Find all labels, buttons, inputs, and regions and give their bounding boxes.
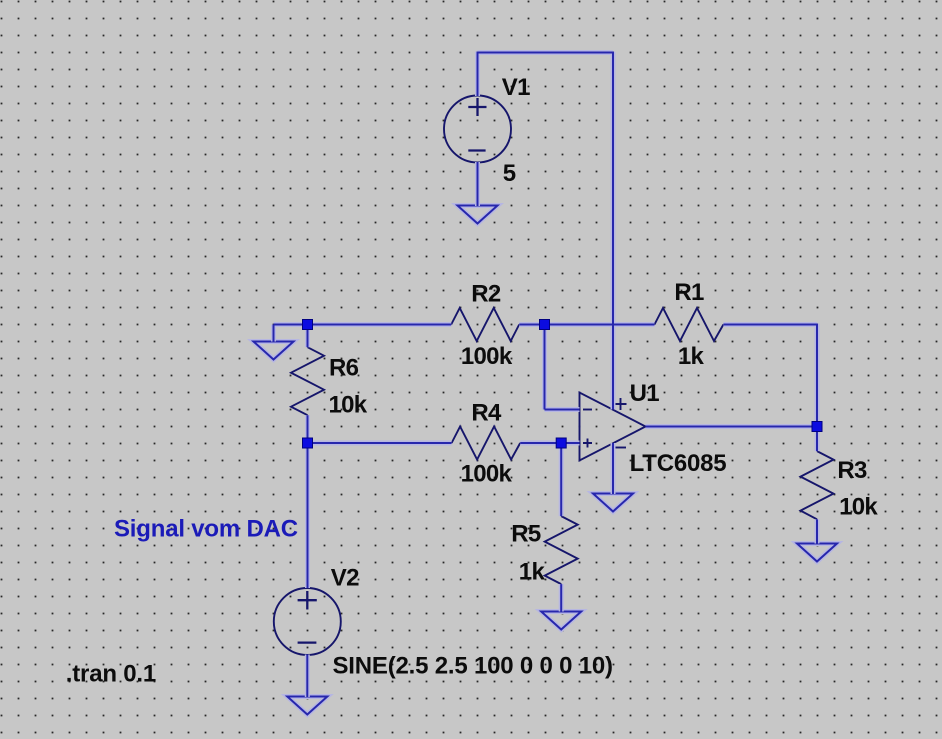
svg-text:100k: 100k <box>461 343 513 370</box>
svg-text:Signal vom DAC: Signal vom DAC <box>114 516 298 543</box>
svg-text:1k: 1k <box>519 559 546 586</box>
svg-text:10k: 10k <box>329 392 368 419</box>
svg-text:100k: 100k <box>461 461 513 488</box>
svg-text:R2: R2 <box>471 281 501 308</box>
svg-text:V1: V1 <box>502 74 530 101</box>
svg-text:LTC6085: LTC6085 <box>630 450 727 477</box>
svg-text:R6: R6 <box>329 355 359 382</box>
svg-text:SINE(2.5 2.5 100 0 0 0 10): SINE(2.5 2.5 100 0 0 0 10) <box>333 653 613 680</box>
svg-text:V2: V2 <box>331 564 359 591</box>
svg-text:10k: 10k <box>839 493 878 520</box>
svg-text:R1: R1 <box>674 279 704 306</box>
svg-text:R4: R4 <box>471 399 502 426</box>
svg-text:R5: R5 <box>511 520 541 547</box>
svg-text:R3: R3 <box>837 457 867 484</box>
svg-text:U1: U1 <box>630 380 660 407</box>
svg-text:.tran 0.1: .tran 0.1 <box>66 661 156 688</box>
svg-text:5: 5 <box>503 160 516 187</box>
svg-text:1k: 1k <box>678 343 705 370</box>
